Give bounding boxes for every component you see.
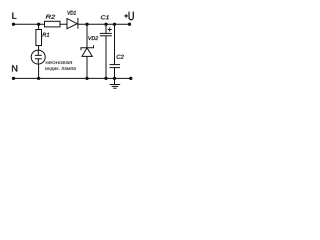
node label N bbox=[12, 65, 17, 71]
ground bbox=[110, 78, 121, 88]
wire VD2 branch upper bbox=[86, 24, 88, 47]
label R2 bbox=[46, 15, 55, 19]
node N terminal dot bbox=[12, 77, 15, 80]
zener diode VD2 bbox=[81, 45, 94, 56]
label VD2 bbox=[88, 36, 98, 40]
node +U terminal dot bbox=[128, 23, 131, 26]
label C1 bbox=[101, 15, 109, 19]
wire R1/lamp branch bbox=[38, 24, 40, 78]
resistor R2 bbox=[45, 21, 61, 27]
junction C1 bottom bbox=[104, 77, 107, 80]
wire C2 branch upper bbox=[114, 24, 116, 64]
junction C1 top bbox=[104, 23, 107, 26]
wire C2 branch lower bbox=[114, 68, 116, 79]
annotation neon lamp line 1 bbox=[46, 61, 72, 64]
resistor R1 bbox=[36, 30, 42, 46]
capacitor C2 bbox=[110, 65, 121, 68]
wire top rail L to VD1 bbox=[14, 23, 68, 25]
junction VD2 bottom bbox=[85, 77, 88, 80]
wire C1 branch upper bbox=[105, 24, 107, 33]
node label +U letter U bbox=[129, 12, 134, 20]
wire VD2 branch lower bbox=[86, 56, 88, 78]
wire top rail VD1 to +U bbox=[78, 23, 130, 25]
diode VD1 bbox=[67, 18, 78, 29]
junction lamp bottom bbox=[37, 77, 40, 80]
node label +U plus sign bbox=[124, 14, 128, 18]
node L terminal dot bbox=[12, 23, 15, 26]
wire C1 branch lower bbox=[105, 36, 107, 79]
junction C2/ground bottom bbox=[113, 77, 116, 80]
junction VD2 top bbox=[85, 23, 88, 26]
capacitor C1 bbox=[100, 28, 112, 36]
wire bottom rail N to end bbox=[14, 77, 131, 79]
node label L bbox=[12, 13, 16, 19]
junction C2 top bbox=[113, 23, 116, 26]
junction R1 top bbox=[37, 23, 40, 26]
neon lamp bbox=[31, 50, 45, 64]
label VD1 bbox=[68, 11, 76, 15]
label R1 bbox=[43, 33, 50, 37]
annotation neon lamp line 2 bbox=[45, 67, 76, 71]
node output minus terminal dot bbox=[129, 77, 132, 80]
label C2 bbox=[117, 55, 124, 59]
